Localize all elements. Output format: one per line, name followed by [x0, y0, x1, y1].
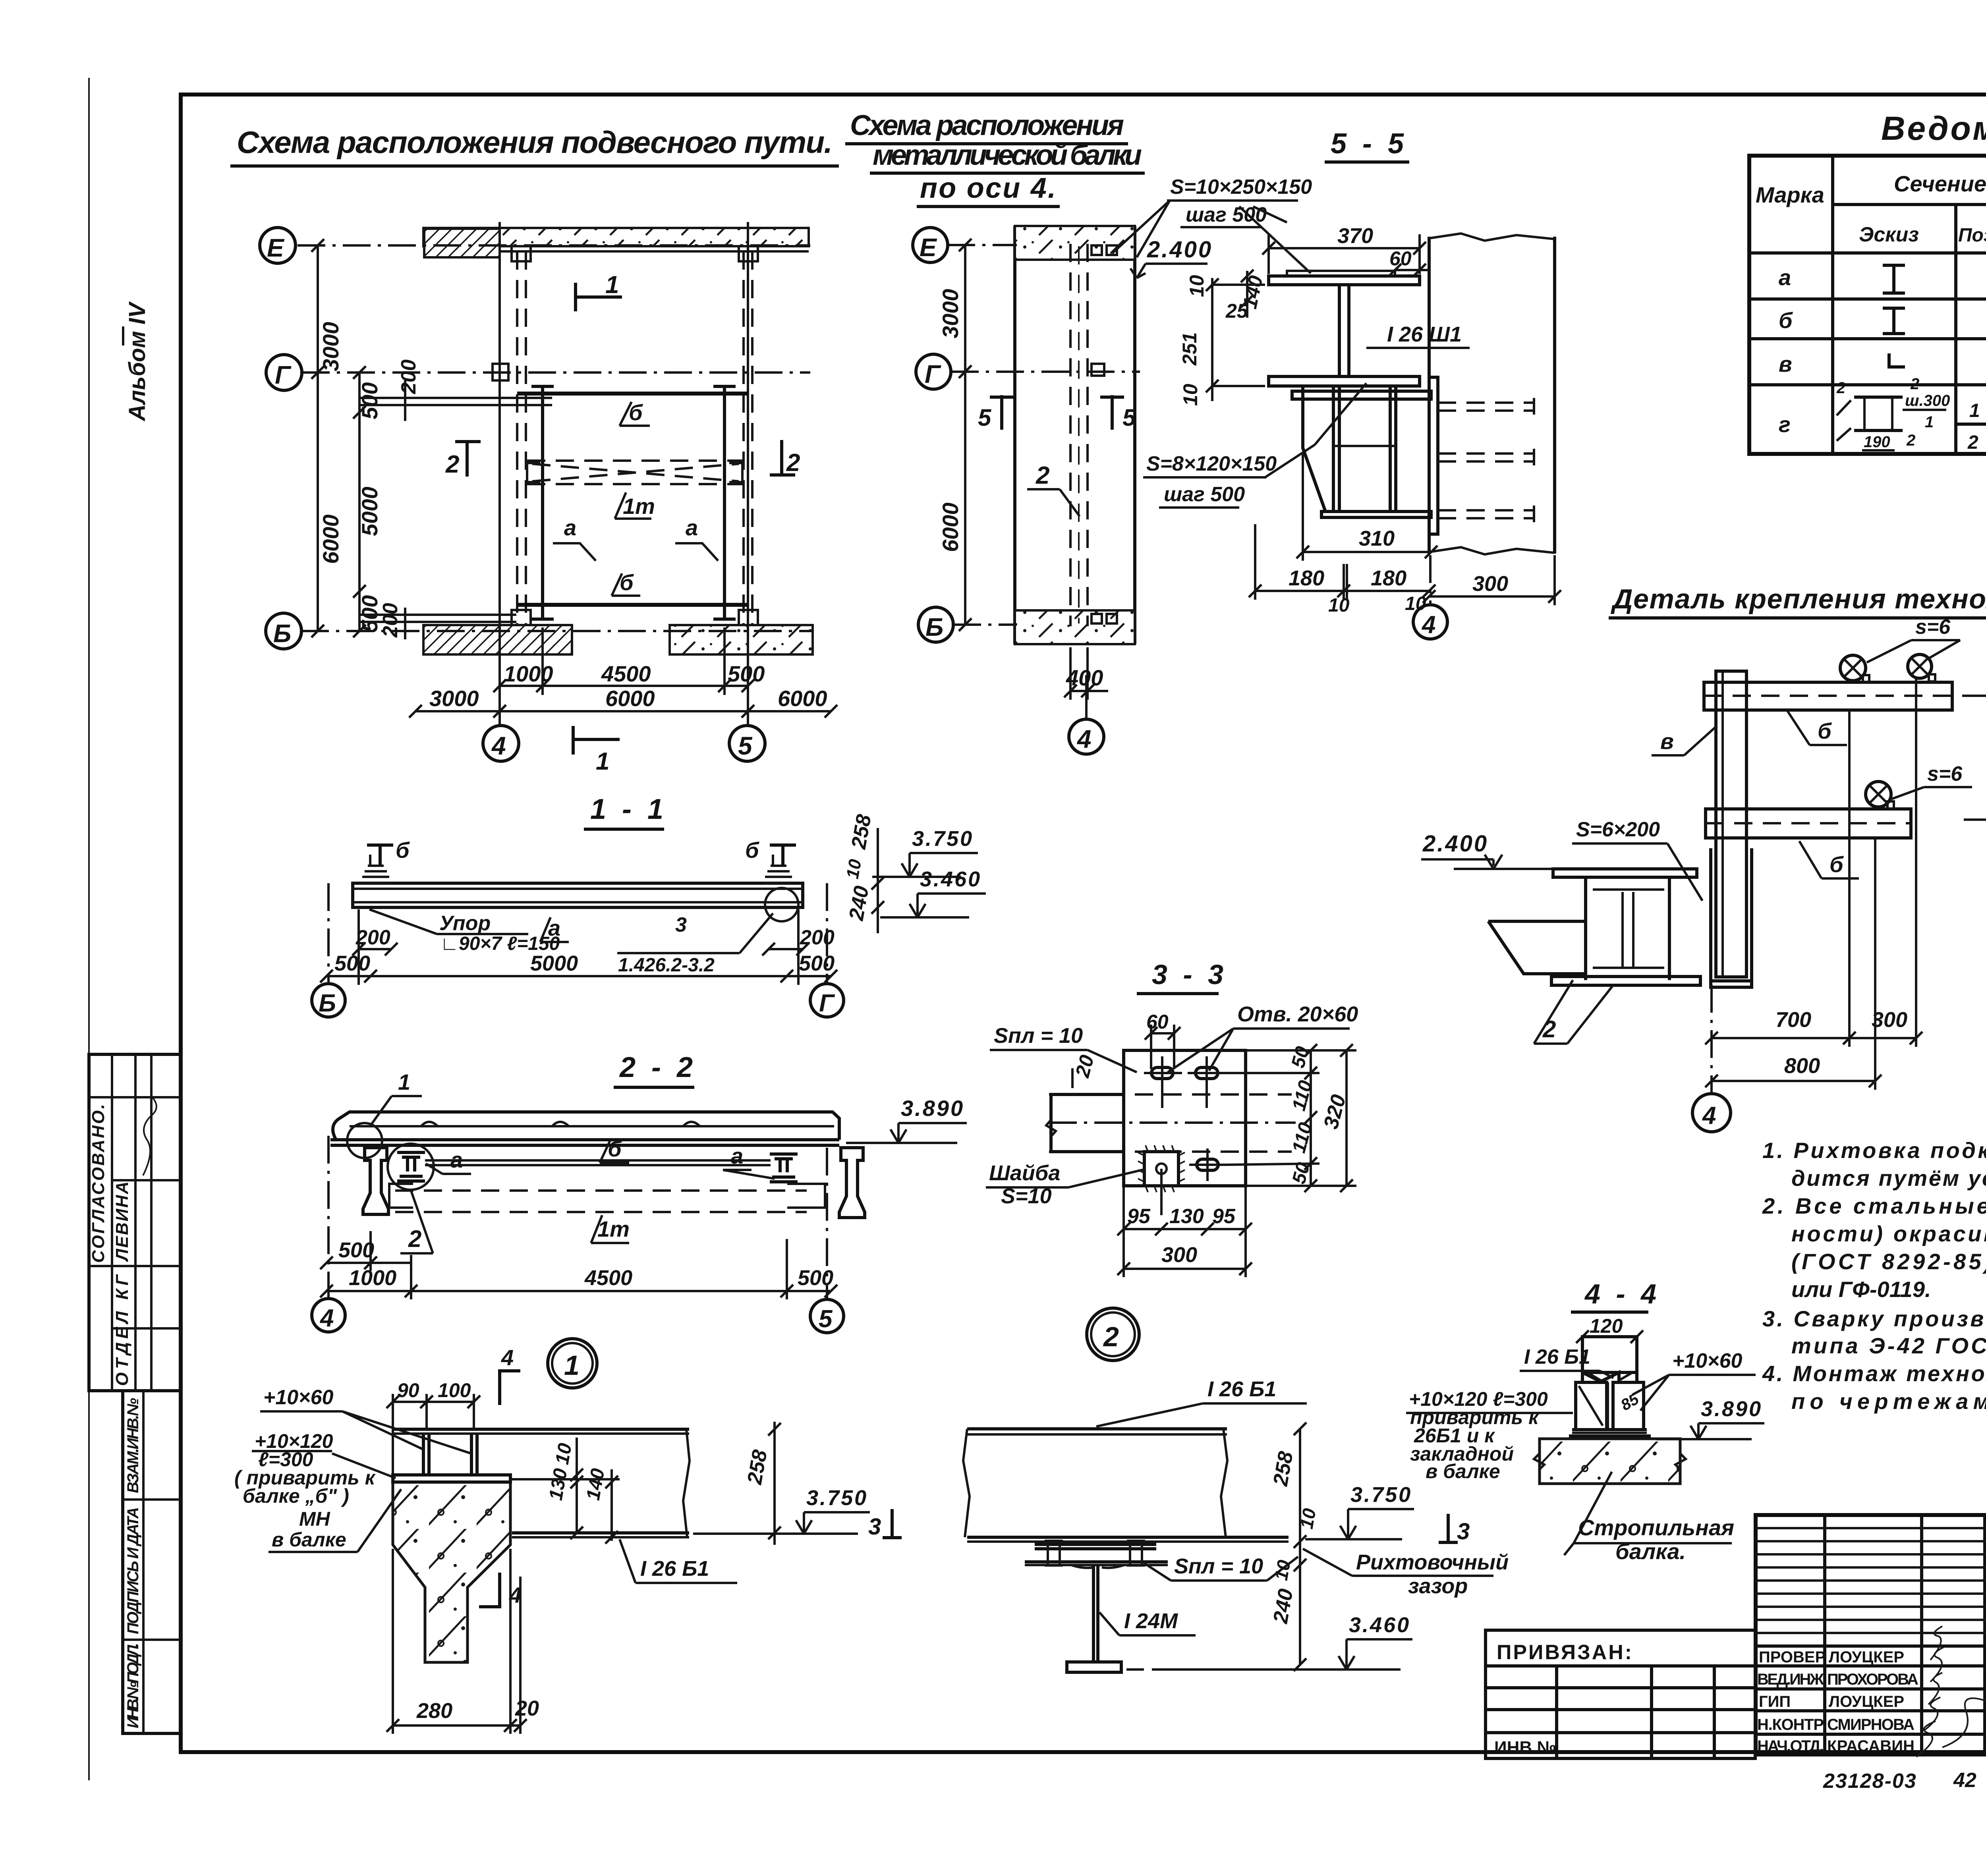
connection plates under beam [1035, 1543, 1156, 1546]
axis circle 4 [483, 726, 519, 761]
svg-text:ЛЕВИНА: ЛЕВИНА [112, 1181, 132, 1262]
svg-text:3000: 3000 [318, 322, 343, 371]
svg-text:Марка: Марка [1756, 182, 1824, 207]
svg-text:1: 1 [564, 1350, 580, 1381]
svg-text:б: б [1818, 718, 1832, 743]
svg-text:1000: 1000 [349, 1266, 396, 1290]
I-beam bottom flange [1269, 376, 1420, 386]
svg-text:2: 2 [1906, 432, 1915, 449]
axis circles [327, 883, 330, 984]
svg-text:800: 800 [1784, 1054, 1820, 1078]
svg-text:2 - 2: 2 - 2 [619, 1052, 697, 1083]
svg-text:2: 2 [1910, 375, 1919, 393]
svg-text:I 26 Ш1: I 26 Ш1 [1387, 322, 1462, 346]
svg-text:зазор: зазор [1408, 1574, 1468, 1598]
svg-text:95: 95 [1212, 1205, 1236, 1228]
I-beam 26Sh1 top flange [1269, 276, 1420, 285]
right hanger [763, 855, 794, 883]
axis circles 4 and 5 [327, 1136, 330, 1299]
pipe 2 on upper arm [1908, 654, 1932, 678]
svg-text:4: 4 [1421, 611, 1435, 639]
section mark 3 [891, 1509, 894, 1539]
svg-text:Шайба: Шайба [989, 1161, 1060, 1185]
svg-text:4: 4 [1076, 725, 1092, 753]
svg-text:по оси 4.: по оси 4. [920, 172, 1056, 204]
svg-text:300: 300 [1872, 1008, 1907, 1032]
svg-text:370: 370 [1337, 224, 1373, 248]
svg-text:КРАСАВИН: КРАСАВИН [1827, 1737, 1915, 1755]
svg-text:в: в [1779, 351, 1792, 376]
vertical plate on wall [1429, 377, 1438, 534]
detail circle 1 [548, 1339, 597, 1388]
bottom dim row 2 (3000/6000/6000) [415, 710, 831, 712]
svg-text:s=6: s=6 [1915, 616, 1951, 639]
axis circle 4 bottom [1069, 719, 1104, 754]
svg-text:130: 130 [545, 1467, 572, 1502]
svg-text:10: 10 [1179, 384, 1202, 406]
svg-text:Эскиз: Эскиз [1859, 223, 1919, 246]
pipe 3 on lower arm [1866, 782, 1891, 807]
svg-text:Sпл = 10: Sпл = 10 [994, 1024, 1083, 1048]
svg-text:5000: 5000 [357, 486, 382, 536]
axis circle B [266, 613, 301, 649]
section mark 5 left [1000, 395, 1003, 430]
T mark b right [770, 843, 796, 847]
beam a left vertical with T ends [541, 386, 544, 619]
dim 258 + 3.750 [773, 1422, 776, 1545]
axis circle 5 [729, 726, 765, 761]
section mark 4 bottom [498, 1573, 501, 1608]
svg-text:1т: 1т [623, 494, 655, 519]
svg-text:Отв. 20×60: Отв. 20×60 [1237, 1002, 1358, 1026]
svg-text:б: б [1779, 308, 1793, 333]
axis B dashdot [953, 623, 1017, 626]
svg-text:б: б [608, 1136, 622, 1161]
bottom anchor plates [512, 610, 531, 625]
beam b top (solid) [517, 392, 748, 396]
svg-text:310: 310 [1359, 527, 1395, 550]
mid anchor on axis G [493, 364, 508, 380]
svg-text:Поз.: Поз. [1958, 225, 1986, 246]
axis G dashdot [951, 371, 1140, 373]
svg-text:4500: 4500 [584, 1266, 632, 1290]
person names [1827, 1648, 1918, 1755]
svg-text:5: 5 [819, 1305, 833, 1333]
svg-text:Альбом IV: Альбом IV [124, 301, 150, 422]
svg-text:6000: 6000 [318, 514, 343, 564]
svg-text:I 26 Б1: I 26 Б1 [1207, 1377, 1276, 1401]
svg-text:4: 4 [319, 1305, 334, 1332]
svg-text:СМИРНОВА: СМИРНОВА [1827, 1716, 1915, 1733]
top wall hatched band [423, 228, 809, 246]
svg-text:140: 140 [583, 1467, 609, 1502]
T mark b left [367, 843, 393, 847]
svg-text:в балке: в балке [272, 1529, 346, 1551]
svg-text:2: 2 [445, 451, 459, 478]
svg-text:+10×60: +10×60 [1672, 1349, 1742, 1372]
svg-text:85: 85 [1618, 1390, 1642, 1414]
svg-text:НАЧ.ОТД.: НАЧ.ОТД. [1757, 1737, 1824, 1755]
svg-text:251: 251 [1178, 332, 1201, 366]
svg-text:200: 200 [355, 926, 390, 949]
svg-text:180: 180 [1371, 566, 1406, 590]
right dims 50/110/110/50 + 320 [1310, 1050, 1312, 1186]
svg-text:3.750: 3.750 [912, 827, 974, 851]
svg-text:4: 4 [501, 1345, 514, 1370]
bottom wall left hatched [423, 625, 572, 654]
svg-text:6000: 6000 [778, 686, 827, 711]
dim 180/180 and 10s [1255, 590, 1429, 592]
dim line vertical 1 (3000/6000) [317, 245, 319, 631]
dim 300 [1429, 595, 1555, 598]
axis circle G [916, 354, 951, 389]
svg-text:42: 42 [1953, 1769, 1976, 1792]
svg-text:700: 700 [1775, 1008, 1811, 1032]
svg-text:S=8×120×150: S=8×120×150 [1146, 452, 1277, 475]
svg-text:металлической балки: металлической балки [873, 139, 1142, 171]
svg-text:2: 2 [1103, 1321, 1119, 1352]
rail hanger right [770, 1154, 798, 1182]
beam 26B1 elevation [967, 1427, 1227, 1430]
svg-text:3000: 3000 [938, 289, 963, 338]
svg-text:4: 4 [491, 731, 506, 760]
svg-text:110: 110 [1288, 1078, 1316, 1113]
svg-text:в балке: в балке [1426, 1460, 1500, 1482]
svg-text:200: 200 [397, 359, 420, 394]
hidden monorail dashed [395, 1189, 807, 1192]
svg-text:4: 4 [1702, 1102, 1716, 1129]
svg-text:Г: Г [275, 361, 292, 389]
signatures column squiggles [1916, 1626, 1944, 1757]
right dim line 258/10/10/240 [1299, 1429, 1301, 1665]
svg-text:ИНВ.№ПОДЛ.: ИНВ.№ПОДЛ. [124, 1643, 142, 1728]
axis 5 line [747, 222, 749, 726]
svg-text:ГИП: ГИП [1759, 1693, 1791, 1710]
upper arm b [1704, 682, 1952, 710]
svg-text:в: в [1660, 729, 1674, 754]
axis circle G [266, 355, 302, 390]
svg-text:3.750: 3.750 [1350, 1483, 1412, 1507]
table verticals [1833, 156, 1986, 454]
dim 200 near B [359, 614, 516, 616]
suspension beam line [330, 1144, 839, 1147]
svg-text:Б: Б [319, 990, 336, 1017]
svg-text:а: а [1779, 265, 1791, 290]
svg-text:Рихтовочный: Рихтовочный [1356, 1550, 1509, 1574]
dims 200 [359, 948, 391, 950]
svg-text:10: 10 [843, 858, 865, 880]
bottom flange [1551, 977, 1700, 985]
svg-text:60: 60 [1389, 247, 1412, 270]
svg-text:а: а [564, 515, 576, 540]
svg-text:6000: 6000 [605, 686, 655, 711]
svg-text:Схема расположения подвесного: Схема расположения подвесного пути. [237, 125, 833, 160]
svg-text:258: 258 [743, 1448, 772, 1486]
svg-text:5: 5 [1122, 404, 1136, 431]
svg-text:S=6×200: S=6×200 [1576, 818, 1660, 841]
svg-text:2: 2 [1836, 379, 1845, 397]
svg-text:ПРИВЯЗАН:: ПРИВЯЗАН: [1497, 1641, 1633, 1664]
svg-text:Н.КОНТР: Н.КОНТР [1757, 1716, 1824, 1733]
svg-text:Б: Б [925, 613, 943, 641]
svg-text:2. Все стальные конструкции (к: 2. Все стальные конструкции (кроме ездов… [1762, 1193, 1986, 1218]
suspended beam 2 dashed vertical [1069, 244, 1072, 626]
svg-text:60: 60 [1146, 1011, 1169, 1033]
svg-text:400: 400 [1066, 665, 1103, 690]
anchor rods dashed [1438, 403, 1533, 518]
table horizontals [1749, 205, 1986, 424]
svg-text:I 26 Б1: I 26 Б1 [1524, 1345, 1590, 1368]
svg-text:10: 10 [1296, 1507, 1320, 1531]
svg-text:а: а [450, 1147, 463, 1172]
svg-text:шаг 500: шаг 500 [1164, 483, 1245, 506]
svg-text:3: 3 [675, 913, 687, 936]
section mark 5 right [1111, 395, 1114, 430]
svg-text:20: 20 [515, 1697, 539, 1720]
bottom wall hatch band [1015, 610, 1135, 644]
svg-text:СОГЛАСОВАНО.: СОГЛАСОВАНО. [89, 1104, 108, 1263]
paper edge line left [88, 78, 90, 1780]
svg-text:ности) окрасить двумя слоями м: ности) окрасить двумя слоями масляной кр… [1791, 1221, 1986, 1246]
section mark 4 top [498, 1369, 501, 1405]
left beam outline [1051, 1094, 1124, 1152]
svg-text:1т: 1т [597, 1216, 630, 1241]
svg-text:2.400: 2.400 [1147, 237, 1213, 262]
svg-text:180: 180 [1289, 566, 1324, 590]
monorail 1t hidden dashed band [527, 461, 742, 484]
right elevation dims [877, 828, 879, 933]
two plate blocks in section [1576, 1382, 1607, 1430]
svg-text:100: 100 [438, 1379, 471, 1401]
svg-text:500: 500 [728, 661, 765, 686]
svg-text:3.460: 3.460 [1349, 1613, 1410, 1637]
svg-text:3.460: 3.460 [920, 867, 981, 891]
beam bottom flange [512, 1531, 689, 1534]
svg-text:1.426.2-3.2: 1.426.2-3.2 [618, 955, 715, 976]
svg-text:6000: 6000 [938, 502, 963, 552]
svg-text:Сечение: Сечение [1894, 171, 1986, 196]
section mark 1 bottom [572, 726, 575, 755]
svg-text:3.890: 3.890 [1701, 1397, 1762, 1421]
axis E line [298, 244, 810, 247]
svg-text:2: 2 [1967, 432, 1978, 453]
svg-text:10: 10 [1328, 595, 1350, 616]
top fixing bolts [1092, 245, 1102, 255]
pipe 1 on upper arm [1840, 655, 1866, 681]
svg-text:Деталь крепления технологическ: Деталь крепления технологических трубопр… [1611, 583, 1986, 614]
svg-text:Упор: Упор [439, 912, 491, 935]
beam 26B1 top flange [393, 1428, 689, 1431]
axis circle B [918, 607, 953, 642]
beam a right vertical with T ends [723, 386, 726, 619]
svg-text:4 - 4: 4 - 4 [1584, 1278, 1660, 1309]
svg-text:500: 500 [334, 952, 370, 975]
bottom fixing bolts [1092, 614, 1102, 623]
svg-text:1 - 1: 1 - 1 [590, 793, 667, 825]
bottom wall right hatched [670, 625, 813, 654]
svg-text:S=10×250×150: S=10×250×150 [1170, 176, 1312, 199]
svg-text:б: б [396, 838, 410, 863]
svg-text:258: 258 [1269, 1449, 1298, 1488]
svg-text:4. Монтаж технологических труб: 4. Монтаж технологических трубопроводов … [1762, 1361, 1986, 1386]
svg-text:4500: 4500 [601, 661, 651, 686]
svg-text:200: 200 [379, 603, 402, 638]
left columns of title block [1823, 1515, 1826, 1754]
dim 400 bottom [1070, 690, 1108, 692]
detail circle 2 [1087, 1308, 1139, 1361]
dim line vertical 2 (500/5000/500) [358, 372, 361, 631]
I24M beam below [1093, 1565, 1098, 1662]
svg-text:ВЕД.ИНЖ: ВЕД.ИНЖ [1757, 1671, 1824, 1688]
bolts [1045, 1541, 1145, 1565]
svg-text:2: 2 [1036, 462, 1049, 489]
svg-text:240: 240 [1269, 1587, 1298, 1625]
axis circle E [913, 228, 948, 262]
vertical angle post (element v) [1716, 671, 1746, 977]
left margin stamp group 2 [123, 1391, 181, 1733]
svg-text:95: 95 [1127, 1205, 1151, 1228]
axis G line [302, 371, 810, 374]
axis circle 4 [1692, 1094, 1731, 1132]
svg-text:Sпл = 10: Sпл = 10 [1174, 1554, 1263, 1578]
svg-text:типа Э-42 ГОСТ 9467-75. h шва: типа Э-42 ГОСТ 9467-75. h шва = 6мм. Тип… [1791, 1333, 1986, 1358]
left console (double-tee suspension) [363, 1148, 388, 1214]
dim 90 100 top [393, 1401, 474, 1403]
svg-text:5 - 5: 5 - 5 [1331, 128, 1408, 160]
svg-text:10: 10 [552, 1442, 576, 1466]
left hanger [361, 855, 391, 883]
svg-text:б: б [745, 838, 759, 863]
bottom shoe channel [1711, 848, 1752, 987]
svg-text:ЛОУЦКЕР: ЛОУЦКЕР [1829, 1693, 1904, 1710]
svg-text:Г: Г [819, 990, 835, 1017]
slot holes [1151, 1067, 1218, 1170]
svg-text:3000: 3000 [429, 686, 479, 711]
svg-text:300: 300 [1472, 572, 1508, 596]
beam b bottom (solid) [517, 603, 748, 607]
axis circle E [260, 228, 296, 263]
center axis of post [1710, 985, 1713, 1093]
dim 310 [1303, 551, 1431, 553]
svg-text:Схема расположения: Схема расположения [850, 110, 1124, 141]
svg-text:500: 500 [338, 1238, 374, 1262]
left broken flange wedge [1488, 921, 1584, 974]
beam section box [1586, 877, 1669, 980]
svg-text:500: 500 [799, 952, 835, 975]
role names [1757, 1648, 1826, 1755]
svg-text:ИНВ.№: ИНВ.№ [1494, 1738, 1556, 1757]
svg-text:Б: Б [273, 619, 291, 648]
svg-text:10: 10 [1186, 275, 1208, 297]
svg-text:Г: Г [925, 360, 941, 388]
detail circle 2 [1111, 1333, 1115, 1336]
svg-text:или ГФ-0119.: или ГФ-0119. [1791, 1277, 1931, 1302]
svg-text:ПРОВЕР: ПРОВЕР [1759, 1648, 1826, 1666]
diagonal leader to S=8 plate [1315, 383, 1366, 445]
top wall hatch band [1015, 226, 1135, 260]
svg-text:50: 50 [1287, 1044, 1313, 1070]
dim 500 short [326, 1262, 411, 1264]
section mark 2 right [780, 440, 783, 477]
svg-text:1: 1 [1969, 400, 1980, 421]
hidden beam dashed lines through plate [1049, 1093, 1292, 1096]
svg-text:3.750: 3.750 [806, 1486, 868, 1510]
lower arm b [1706, 809, 1911, 838]
dim 280 20 bottom [393, 1724, 520, 1727]
detail node circle right [765, 888, 798, 921]
small circle at left corner [347, 1123, 382, 1158]
svg-text:110: 110 [1288, 1120, 1316, 1155]
svg-text:(ГОСТ 8292-85) по грунтовке ГФ: (ГОСТ 8292-85) по грунтовке ГФ-021(ГОСТ … [1791, 1249, 1986, 1274]
svg-text:20: 20 [1071, 1052, 1098, 1080]
svg-text:б: б [1830, 852, 1844, 877]
svg-text:120: 120 [1590, 1315, 1623, 1337]
bottom dims 95/130/95 and 300 [1124, 1228, 1246, 1230]
svg-text:s=6: s=6 [1927, 762, 1963, 786]
MAIN TITLE BLOCK bottom right [1756, 1515, 1986, 1757]
svg-text:3: 3 [868, 1514, 881, 1540]
svg-text:Стропильная: Стропильная [1578, 1515, 1734, 1540]
svg-text:130: 130 [1169, 1205, 1204, 1228]
beam a elevation [353, 883, 803, 907]
svg-text:I 26 Б1: I 26 Б1 [640, 1557, 709, 1581]
svg-text:5: 5 [738, 731, 753, 760]
dim line vertical (3000/6000) [964, 245, 966, 625]
left margin stamp group 1 [89, 1054, 181, 1391]
svg-text:ПОДПИСЬ И ДАТА: ПОДПИСЬ И ДАТА [124, 1507, 142, 1634]
svg-text:23128-03: 23128-03 [1823, 1770, 1917, 1793]
svg-text:5000: 5000 [530, 952, 578, 975]
thin rows upper left [1756, 1528, 1986, 1633]
right console (double-tee suspension) [839, 1148, 865, 1218]
crane beam 2 cross-section: top plate [1553, 869, 1697, 877]
svg-text:10: 10 [1271, 1558, 1294, 1582]
mid fixing bolt on G [1092, 364, 1104, 376]
concrete rafter beam [1540, 1439, 1680, 1484]
svg-text:1: 1 [398, 1069, 410, 1094]
svg-text:240: 240 [845, 884, 873, 923]
top-left wall pier dark hatch [424, 229, 500, 257]
svg-text:1: 1 [605, 271, 619, 299]
name rows [1756, 1646, 1986, 1734]
beam flange from top [1582, 1337, 1637, 1382]
svg-text:ОТДЕЛ КГ: ОТДЕЛ КГ [112, 1274, 132, 1386]
axis B line [301, 630, 813, 632]
svg-text:1: 1 [596, 748, 609, 775]
axis E dashdot [947, 244, 1017, 246]
svg-text:балка.: балка. [1615, 1539, 1686, 1564]
svg-text:90: 90 [397, 1379, 419, 1401]
embedded plate [393, 1475, 510, 1482]
PRIVYAZAN sub table [1486, 1630, 1755, 1758]
svg-text:5: 5 [978, 404, 992, 431]
dim 800 [1712, 1080, 1875, 1082]
rail hanger left in detail circle [388, 1144, 434, 1190]
svg-text:ВЗАМ.ИНВ.№: ВЗАМ.ИНВ.№ [124, 1398, 142, 1493]
dim row 1000/4500/500 [326, 1290, 831, 1292]
bottom dim row 1 (1000/4500/500) [500, 685, 748, 687]
svg-text:а: а [731, 1143, 743, 1168]
svg-text:3: 3 [1457, 1519, 1470, 1544]
section mark 1 top [574, 283, 577, 311]
svg-text:258: 258 [847, 813, 876, 851]
svg-text:1. Рихтовка подкрановых путей: 1. Рихтовка подкрановых путей по вертика… [1762, 1138, 1986, 1163]
concrete T beam [393, 1482, 510, 1662]
svg-text:2: 2 [408, 1226, 421, 1252]
svg-text:а: а [686, 515, 698, 540]
section mark 2 left [466, 440, 469, 477]
svg-text:2.400: 2.400 [1422, 831, 1488, 857]
